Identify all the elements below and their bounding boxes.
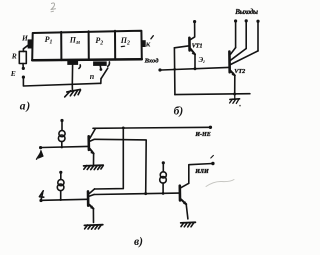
ground part b xyxy=(230,94,240,103)
faint pencil curve xyxy=(206,180,234,187)
svg-text:п: п xyxy=(90,72,95,81)
input B glyph xyxy=(39,191,43,200)
OR wire end dot xyxy=(211,162,214,165)
speck below ground xyxy=(239,105,241,107)
output stub 1 dot xyxy=(234,19,237,22)
divider box3/box4 xyxy=(114,31,116,60)
base wire A to Q1 xyxy=(42,146,87,147)
thick bottom edge of row xyxy=(32,59,142,60)
Q1 emitter arrowhead xyxy=(90,150,94,154)
cs1 junction dot xyxy=(61,146,63,148)
output stub 2 dot xyxy=(245,19,248,22)
Q1 second collector wire to Q3 base xyxy=(94,139,146,193)
ground Q1 xyxy=(84,165,104,169)
resistor bottom stub xyxy=(22,64,24,67)
dash mark in box4 xyxy=(121,45,124,47)
NAND output wire (top rail) xyxy=(93,127,210,128)
injector current source 2 xyxy=(57,174,64,200)
svg-text:б): б) xyxy=(174,106,184,118)
output stub 3 xyxy=(257,23,259,51)
output stub 1 xyxy=(235,22,237,47)
divider box1/box2 xyxy=(60,32,62,60)
faint page number 2 xyxy=(51,3,56,12)
switch P contact stub xyxy=(99,66,101,68)
svg-text:VT2: VT2 xyxy=(234,68,245,75)
ground Q2 xyxy=(84,225,102,229)
ground Q3 xyxy=(181,222,196,227)
VT2 emitter arrowhead xyxy=(232,72,236,76)
svg-text:в): в) xyxy=(134,236,143,248)
transistor VT2 multicollector xyxy=(229,48,258,95)
tick b xyxy=(108,62,110,67)
svg-text:R: R xyxy=(11,51,17,60)
junction dot Eg xyxy=(194,67,197,70)
input terminal blob left xyxy=(28,39,32,48)
node E dot xyxy=(22,76,25,79)
injector current source 1 xyxy=(58,122,65,147)
VT1 emitter arrowhead xyxy=(192,51,196,55)
input terminal dot xyxy=(158,68,161,71)
NAND wire end dot xyxy=(209,126,212,129)
svg-text:ИЛИ: ИЛИ xyxy=(194,169,209,175)
cs2 junction dot xyxy=(60,199,62,201)
svg-text:Вход: Вход xyxy=(144,58,160,65)
bottom rail part b xyxy=(175,93,250,96)
junction dot base line xyxy=(173,68,176,71)
input wire to VT2 base xyxy=(162,67,229,70)
ground part a xyxy=(65,85,81,97)
terminal tab under box3 xyxy=(93,61,107,66)
node wire to Q3 base xyxy=(94,193,179,194)
output terminal blob right xyxy=(142,40,146,47)
svg-text:а): а) xyxy=(20,101,31,113)
transistor Q2 xyxy=(88,189,95,223)
transistor VT1 xyxy=(174,23,195,69)
svg-text:П2: П2 xyxy=(120,36,130,46)
svg-text:Эг: Эг xyxy=(199,56,206,65)
input A arrow glyph xyxy=(38,150,43,158)
resistor R xyxy=(19,51,26,63)
cs3 top dot xyxy=(162,161,165,164)
Q2 collector wire to top rail xyxy=(95,128,124,189)
divider box2/box3 xyxy=(88,31,90,60)
vertical wire VT1 base to bottom rail xyxy=(173,48,176,95)
wire tab to ground xyxy=(71,65,73,85)
cs2 top dot xyxy=(59,171,62,174)
injector current source 3 xyxy=(160,164,167,193)
switch P contact dot xyxy=(100,68,103,71)
svg-text:Р2: Р2 xyxy=(95,36,103,46)
svg-text:Выходы: Выходы xyxy=(234,8,258,16)
Q3 emitter arrowhead xyxy=(183,201,187,205)
svg-text:И: И xyxy=(21,33,29,42)
transistor Q1 xyxy=(89,129,96,165)
junction dot node/cs3 xyxy=(162,192,165,195)
Q3 collector wire OR output xyxy=(189,164,213,184)
junction dot top rail xyxy=(122,127,125,130)
svg-text:Е: Е xyxy=(10,69,16,78)
base wire B to Q2 xyxy=(43,199,87,200)
switch P lever xyxy=(101,68,108,78)
svg-text:VT1: VT1 xyxy=(192,43,203,49)
switch P pivot wire xyxy=(100,78,102,83)
VT1 top terminal dot xyxy=(193,20,196,23)
input A terminal dot xyxy=(39,146,42,149)
node dot xyxy=(22,67,25,70)
junction dot node/Q1c2 xyxy=(144,192,147,195)
wire blob to resistor xyxy=(23,45,28,51)
output stub 2 xyxy=(245,22,247,48)
junction dot emitter rail xyxy=(233,93,236,96)
output stub 3 dot xyxy=(256,20,259,23)
svg-text:к: к xyxy=(146,38,151,48)
register block row (P1 Pm P2 P2) xyxy=(32,31,142,61)
input B terminal dot xyxy=(39,199,42,202)
cs1 top dot xyxy=(60,119,63,122)
tick e xyxy=(79,65,80,69)
Q2 emitter arrowhead xyxy=(90,206,94,210)
svg-text:И-НЕ: И-НЕ xyxy=(194,132,210,138)
wire E to bottom rail xyxy=(23,79,100,87)
svg-text:Р1: Р1 xyxy=(45,35,53,45)
transistor Q3 xyxy=(180,183,189,219)
svg-text:Пм: Пм xyxy=(69,36,80,46)
label k tick xyxy=(151,36,153,39)
tick above OR dot xyxy=(211,155,214,158)
terminal tab under box2 xyxy=(67,61,78,65)
